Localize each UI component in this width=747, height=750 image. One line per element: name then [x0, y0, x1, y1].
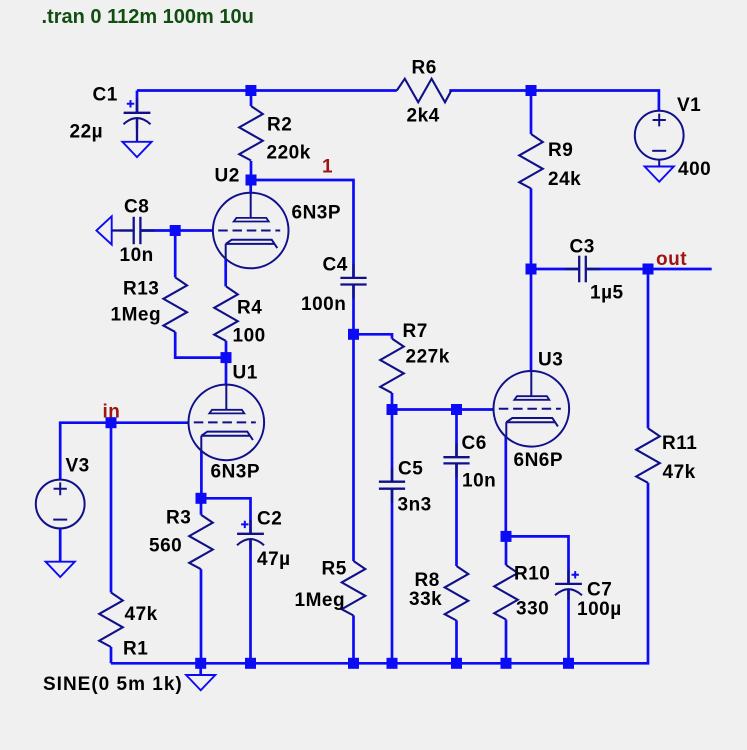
wire out to R11	[647, 269, 650, 428]
wire R2 bottom lead	[250, 161, 253, 180]
wire to C5	[391, 410, 394, 482]
svg-text:220k: 220k	[267, 142, 311, 163]
resistor R10 330	[494, 565, 518, 620]
wire to C7	[506, 536, 569, 584]
wire to R10	[505, 536, 508, 565]
svg-text:100n: 100n	[301, 294, 346, 315]
svg-text:R5: R5	[322, 559, 347, 580]
resistor R1 47k	[99, 593, 123, 648]
node R9 / C3 / U3 plate	[526, 264, 537, 275]
voltage source V1 400	[635, 111, 684, 160]
node rail / R8	[451, 658, 462, 669]
svg-text:R10: R10	[514, 564, 550, 585]
svg-text:R8: R8	[415, 570, 440, 591]
wire C1 bottom lead to ground	[136, 119, 138, 142]
svg-text:330: 330	[516, 599, 549, 620]
svg-text:47k: 47k	[663, 462, 696, 483]
svg-text:R4: R4	[237, 298, 262, 319]
svg-text:33k: 33k	[409, 589, 442, 610]
svg-text:C5: C5	[398, 458, 423, 479]
wire to U1 plate	[225, 358, 228, 385]
svg-text:6N3P: 6N3P	[292, 203, 342, 224]
wire R9 bottom lead	[530, 188, 533, 269]
wire to R13	[174, 231, 177, 278]
svg-text:R7: R7	[403, 321, 428, 342]
svg-text:100µ: 100µ	[577, 599, 622, 620]
svg-text:C8: C8	[124, 197, 149, 218]
svg-text:3n3: 3n3	[398, 495, 432, 516]
svg-text:400: 400	[678, 159, 711, 180]
wire in to U1 grid	[111, 421, 189, 424]
resistor R3 560	[189, 515, 213, 570]
resistor R9 24k	[519, 134, 543, 188]
svg-text:47µ: 47µ	[257, 549, 291, 570]
node C4 / R7 / R5	[348, 329, 359, 340]
resistor R5 1Meg	[342, 561, 366, 616]
wire in to R1	[110, 423, 113, 593]
wire C2 to rail	[249, 540, 252, 664]
wire V3 to ground	[59, 528, 62, 561]
ground below rail	[186, 675, 215, 690]
resistor R11 47k	[636, 428, 660, 482]
wire C6 to R8	[455, 463, 458, 566]
svg-text:in: in	[103, 402, 121, 423]
wire down to R5	[352, 334, 355, 561]
node rail / C7	[563, 658, 574, 669]
wire to C6	[455, 410, 458, 458]
svg-text:10n: 10n	[120, 245, 154, 266]
resistor R13 1Meg	[163, 277, 187, 331]
ground below V1	[645, 167, 674, 182]
svg-text:U3: U3	[538, 350, 563, 371]
svg-text:R13: R13	[123, 279, 159, 300]
resistor R7 227k	[380, 339, 404, 393]
svg-text:U2: U2	[215, 165, 240, 186]
wire to U3 plate	[530, 269, 533, 371]
resistor R2 220k	[239, 106, 263, 161]
capacitor C3 1u5	[565, 256, 600, 283]
triode U3 6N6P	[494, 371, 570, 447]
triode U2 6N3P	[213, 193, 289, 269]
svg-text:U1: U1	[233, 363, 258, 384]
triode U1 6N3P	[189, 385, 265, 461]
node net in	[106, 417, 117, 428]
svg-text:R6: R6	[412, 58, 437, 79]
svg-text:C1: C1	[93, 85, 118, 106]
capacitor C5 3n3	[379, 468, 405, 503]
net flag port at C8	[96, 216, 111, 244]
svg-text:V3: V3	[66, 456, 90, 477]
capacitor C1 22u	[124, 99, 151, 129]
wire R1 bottom lead	[110, 647, 113, 663]
voltage source V3 SINE	[36, 480, 85, 529]
capacitor C2 47u	[237, 520, 264, 550]
wire R13 to node	[175, 332, 226, 358]
wire ground stub	[199, 663, 202, 675]
wire U3 cathode down	[504, 437, 507, 536]
capacitor C6 10n	[443, 443, 469, 477]
node rail / C5	[387, 658, 398, 669]
wire R10 to rail	[505, 620, 508, 664]
svg-text:560: 560	[149, 536, 182, 557]
svg-text:22µ: 22µ	[70, 122, 104, 143]
svg-text:R1: R1	[123, 639, 148, 660]
svg-text:1µ5: 1µ5	[590, 283, 624, 304]
node rail / R5	[348, 658, 359, 669]
node R2 / net 1 / U2 plate	[246, 175, 257, 186]
wire C1 top lead	[136, 91, 139, 113]
wire junction to R3	[200, 498, 203, 514]
wire C3 to out stub	[586, 268, 712, 271]
svg-text:C2: C2	[257, 509, 282, 530]
wire C7 to rail	[567, 590, 570, 664]
svg-text:100: 100	[233, 326, 266, 347]
wire R7 bottom	[391, 393, 394, 410]
wire R2 top lead	[250, 91, 253, 107]
wire C4 bottom	[352, 284, 355, 334]
wire R11 down and bottom rail	[111, 483, 648, 664]
ground below C1	[122, 142, 151, 157]
node top rail / R2	[245, 85, 256, 96]
resistor R8 33k	[445, 566, 469, 621]
node U1 cathode / R3 / C2	[196, 493, 207, 504]
svg-text:R3: R3	[166, 508, 191, 529]
node R4 / R13 / U1 plate	[221, 352, 232, 363]
svg-text:10n: 10n	[462, 471, 496, 492]
svg-text:.tran 0 112m 100m 10u: .tran 0 112m 100m 10u	[42, 6, 254, 28]
capacitor C4 100n	[340, 264, 366, 299]
capacitor C8 10n	[120, 217, 155, 244]
svg-text:47k: 47k	[125, 604, 158, 625]
wire R3 to rail	[200, 569, 203, 663]
wire to U2 plate	[249, 180, 252, 193]
wire top rail right to V1	[449, 91, 659, 111]
wire R8 to rail	[455, 620, 458, 663]
node R7 / C5	[387, 404, 398, 415]
wire R4 bottom	[225, 341, 228, 358]
svg-text:2k4: 2k4	[407, 106, 440, 127]
svg-text:R11: R11	[662, 433, 697, 454]
svg-text:C7: C7	[587, 580, 612, 601]
svg-text:24k: 24k	[548, 169, 581, 190]
wire C8 to U2 grid	[140, 229, 213, 232]
node C8 / U2 grid / R13	[170, 225, 181, 236]
svg-text:C3: C3	[570, 237, 595, 258]
svg-text:C6: C6	[462, 433, 487, 454]
wire in to V3	[60, 423, 111, 480]
capacitor C7 100u	[555, 570, 582, 600]
wire U1 cathode down	[200, 451, 203, 499]
node rail / R10	[501, 658, 512, 669]
resistor R6 2k4	[397, 79, 451, 103]
svg-text:R2: R2	[267, 115, 292, 136]
svg-text:1Meg: 1Meg	[111, 305, 162, 326]
resistor R4 100	[214, 286, 238, 340]
svg-text:SINE(0 5m 1k): SINE(0 5m 1k)	[43, 674, 183, 695]
node rail / C2	[245, 658, 256, 669]
voltage source V1 bottom pin	[658, 160, 660, 167]
wire R9 top lead	[530, 91, 533, 135]
ground below V3	[46, 562, 75, 577]
svg-text:227k: 227k	[406, 346, 450, 367]
node top rail / R9	[526, 85, 537, 96]
wire to R7 top	[354, 334, 393, 338]
svg-text:6N3P: 6N3P	[211, 462, 261, 483]
svg-text:R9: R9	[548, 140, 573, 161]
wire to C3	[531, 268, 579, 271]
wire to C2	[201, 498, 251, 534]
wire net 1 to C4	[251, 180, 354, 278]
wire grid row to U3	[392, 408, 494, 411]
svg-text:1: 1	[322, 157, 333, 178]
wire C5 to rail	[391, 488, 394, 664]
svg-text:C4: C4	[323, 255, 348, 276]
node C6 tap	[451, 404, 462, 415]
node rail / R3 / ground	[195, 658, 206, 669]
node net out	[643, 264, 654, 275]
wire R5 to rail	[352, 615, 355, 663]
svg-text:V1: V1	[677, 95, 701, 116]
wire U2 cathode to R4	[224, 259, 227, 287]
svg-text:1Meg: 1Meg	[295, 590, 346, 611]
svg-text:6N6P: 6N6P	[514, 450, 564, 471]
node U3 cathode / R10 / C7	[501, 531, 512, 542]
wire C8 flag link	[112, 229, 134, 231]
wire top rail left	[137, 89, 397, 92]
svg-text:out: out	[656, 249, 687, 270]
